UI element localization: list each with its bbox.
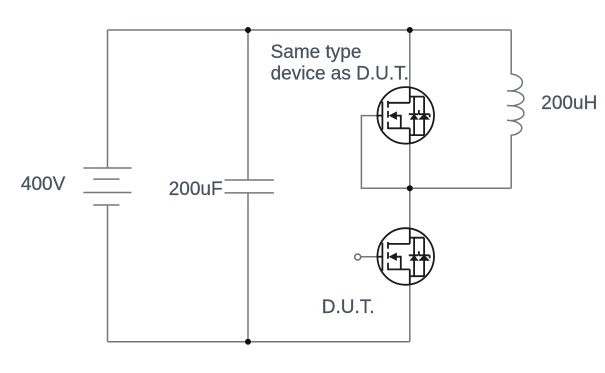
MOSFET Q1 same type device as D.U.T. <box>377 87 434 144</box>
node dot: switch node SW <box>407 185 413 191</box>
wire capacitor bottom branch <box>247 193 249 342</box>
capacitor C1 200uF <box>225 180 274 193</box>
wire Q1 source to node SW <box>409 144 411 189</box>
wire capacitor top branch <box>247 30 249 180</box>
MOSFET Q2 D.U.T. <box>377 228 434 285</box>
svg-text:400V: 400V <box>21 174 66 195</box>
wire Q2 source to bottom bus <box>409 285 411 342</box>
wire battery negative to bottom bus <box>107 205 109 342</box>
wire Q1 gate tie to node SW <box>361 116 409 189</box>
inductor L1 200uH (top bus down to node SW) <box>507 30 524 188</box>
wire node SW to Q2 (D.U.T.) drain <box>409 188 411 228</box>
wire bottom bus <box>108 341 410 343</box>
svg-text:200uH: 200uH <box>541 93 597 114</box>
node dot: bottom bus / capacitor <box>245 339 251 345</box>
wire left vertical (top bus to battery +) <box>107 30 109 168</box>
svg-text:device as D.U.T.: device as D.U.T. <box>271 63 409 84</box>
svg-text:Same type: Same type <box>271 42 362 63</box>
wire top bus <box>108 29 512 31</box>
battery V1 400V <box>83 168 131 205</box>
wire node SW to inductor bottom <box>410 187 512 189</box>
Q2 gate terminal circle <box>355 254 361 260</box>
wire top bus to Q1 drain <box>409 30 411 88</box>
wire Q2 gate lead <box>361 256 378 258</box>
node dot: top bus / capacitor <box>245 27 251 33</box>
node dot: top bus / Q1 drain <box>407 27 413 33</box>
svg-text:D.U.T.: D.U.T. <box>322 297 375 318</box>
svg-text:200uF: 200uF <box>169 179 223 200</box>
